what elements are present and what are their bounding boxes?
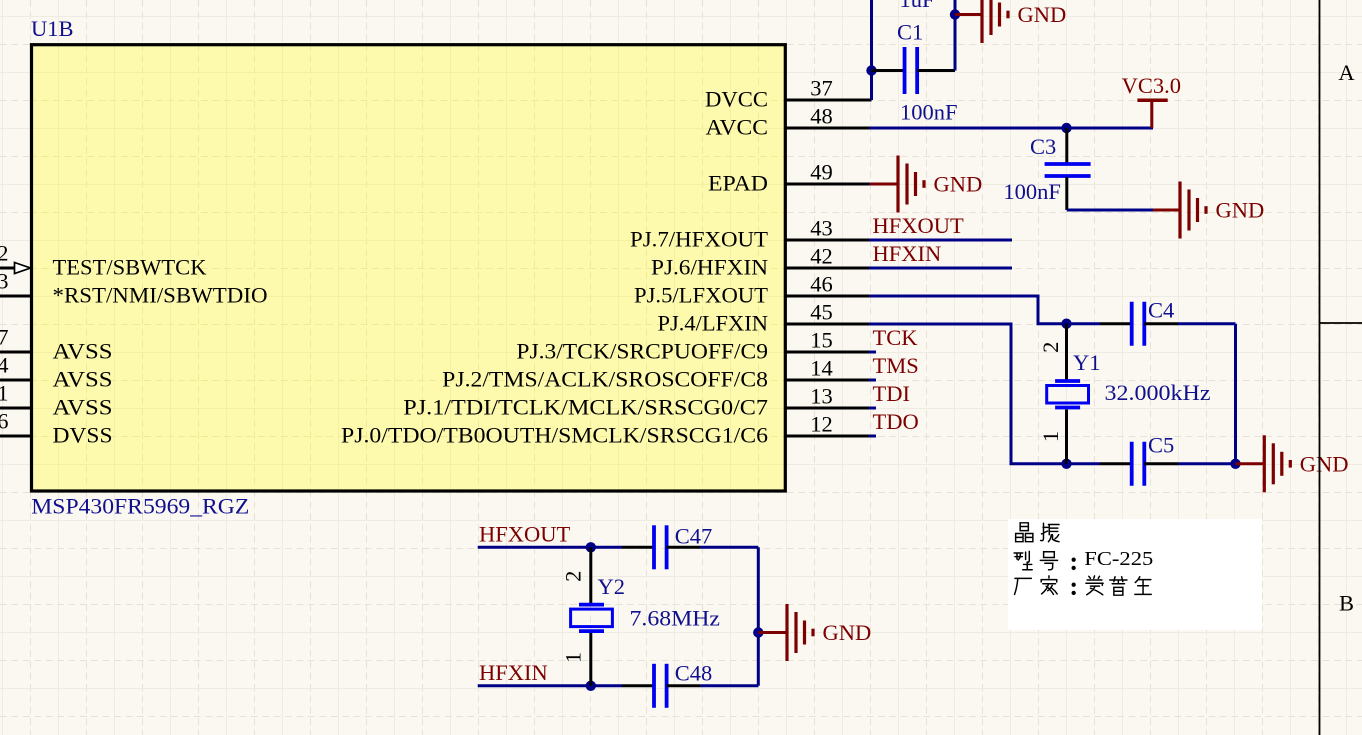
power port GND (top right) — [955, 0, 1066, 43]
pin AVSS (left, number …4) — [0, 353, 113, 392]
value 7.68MHz — [630, 606, 721, 631]
svg-text:VC3.0: VC3.0 — [1122, 73, 1181, 98]
svg-text:1uF: 1uF — [900, 0, 935, 12]
svg-text:PJ.0/TDO/TB0OUTH/SMCLK/SRSCG1/: PJ.0/TDO/TB0OUTH/SMCLK/SRSCG1/C6 — [341, 422, 768, 447]
svg-text:7.68MHz: 7.68MHz — [630, 606, 721, 631]
svg-text:PJ.6/HFXIN: PJ.6/HFXIN — [651, 254, 768, 279]
wire DVCC up to C1 — [870, 0, 873, 100]
capacitor C48 — [622, 661, 712, 708]
svg-text:Y1: Y1 — [1073, 350, 1101, 375]
wire C3 bottom to GND — [1067, 209, 1155, 212]
power port GND (Y2) — [758, 604, 871, 661]
wire HFXIN to C48 — [478, 684, 622, 687]
svg-text:PJ.5/LFXOUT: PJ.5/LFXOUT — [634, 282, 768, 307]
svg-text:49: 49 — [810, 160, 833, 185]
pin 37 DVCC (right) — [705, 76, 872, 112]
designator Y2 — [598, 574, 626, 599]
svg-text:C1: C1 — [897, 19, 923, 44]
power port GND (C3) — [1153, 182, 1264, 239]
pin AVSS (left, number …7) — [0, 325, 113, 364]
wire AVCC to VC3.0 — [869, 127, 1153, 130]
svg-text:100nF: 100nF — [900, 99, 958, 124]
svg-text:48: 48 — [810, 104, 833, 129]
pin 49 EPAD (right) — [708, 160, 872, 196]
net label HFXOUT — [873, 213, 965, 238]
pin AVSS (left, number …1) — [0, 381, 113, 420]
crystal Y1 32.000kHz — [1065, 324, 1068, 464]
svg-text:42: 42 — [810, 244, 833, 269]
net label TMS — [873, 353, 919, 378]
crystal Y2 7.68MHz — [589, 547, 592, 686]
svg-text:1: 1 — [1038, 431, 1063, 442]
svg-text:GND: GND — [1300, 451, 1349, 476]
svg-text:Y2: Y2 — [598, 574, 626, 599]
crystal Y1 symbol — [1047, 381, 1089, 408]
svg-text:PJ.3/TCK/SRCPUOFF/C9: PJ.3/TCK/SRCPUOFF/C9 — [516, 338, 768, 363]
svg-text:DVSS: DVSS — [53, 422, 113, 447]
svg-text:HFXOUT: HFXOUT — [873, 213, 965, 238]
wire crystal bottom node to C5 — [1067, 462, 1101, 465]
text note: crystal type FC-225, maker Epson — [1008, 519, 1262, 630]
svg-text:GND: GND — [823, 620, 872, 645]
capacitor C3 100nF — [1003, 128, 1090, 210]
wire net LFXOUT (pin 46) to crystal top — [869, 296, 1067, 324]
svg-text:HFXIN: HFXIN — [479, 660, 548, 685]
svg-text:1: 1 — [0, 381, 9, 406]
svg-text:13: 13 — [810, 384, 833, 409]
svg-text:C47: C47 — [675, 524, 713, 549]
pin 42 PJ.6/HFXIN (right) — [651, 244, 872, 280]
pin 12 PJ.0/TDO/TB0OUTH/SMCLK/SRSCG1/C6 (right) — [341, 412, 872, 448]
net label TCK — [873, 325, 919, 350]
wire C1 right up to GND net — [954, 0, 957, 71]
net label TDO — [873, 409, 919, 434]
wire net LFXIN (pin 45) to crystal bottom — [869, 324, 1067, 464]
power port GND (EPAD) — [870, 156, 982, 213]
svg-text:3: 3 — [0, 269, 9, 294]
capacitor C1 100nF — [872, 19, 958, 124]
pin 14 PJ.2/TMS/ACLK/SROSCOFF/C8 (right) — [442, 356, 871, 392]
wire stub — [869, 351, 876, 354]
svg-text:TDI: TDI — [873, 381, 911, 406]
svg-text:MSP430FR5969_RGZ: MSP430FR5969_RGZ — [31, 494, 249, 519]
capacitor C2 1uF (cut off at top) — [900, 0, 935, 12]
crystal Y2 symbol — [571, 605, 613, 632]
power port VC3.0 — [1122, 73, 1181, 128]
svg-text:TEST/SBWTCK: TEST/SBWTCK — [53, 254, 208, 279]
svg-text:15: 15 — [810, 328, 833, 353]
node junction at C1 left — [866, 65, 876, 75]
svg-text:32.000kHz: 32.000kHz — [1105, 380, 1211, 405]
wire stub — [869, 379, 876, 382]
svg-text:46: 46 — [810, 272, 833, 297]
svg-text:FC-225: FC-225 — [1084, 548, 1153, 570]
designator U1B — [31, 16, 74, 41]
svg-text:AVSS: AVSS — [53, 394, 113, 419]
svg-text:PJ.4/LFXIN: PJ.4/LFXIN — [658, 310, 769, 335]
node junction AVCC / C3 — [1061, 123, 1071, 133]
svg-text:HFXIN: HFXIN — [873, 241, 942, 266]
svg-text:PJ.7/HFXOUT: PJ.7/HFXOUT — [630, 226, 768, 251]
svg-text:C3: C3 — [1030, 134, 1056, 159]
net label TDI — [873, 381, 911, 406]
svg-text:14: 14 — [810, 356, 833, 381]
value 32.000kHz — [1105, 380, 1211, 405]
node junction crystal Y1 bottom — [1061, 459, 1071, 469]
pin 2 label of Y1 — [1038, 342, 1063, 353]
svg-text:EPAD: EPAD — [708, 170, 768, 195]
svg-text:2: 2 — [1038, 342, 1063, 353]
IC U1B MSP430FR5969_RGZ body — [30, 17, 788, 493]
pin 1 label of Y1 — [1038, 431, 1063, 442]
wire C48 to right rail — [700, 684, 758, 687]
svg-text:TDO: TDO — [873, 409, 919, 434]
svg-text:GND: GND — [1018, 2, 1067, 27]
node junction crystal Y1 top — [1061, 319, 1071, 329]
pin TEST/SBWTCK (left, number …2) — [0, 241, 207, 280]
pin 43 PJ.7/HFXOUT (right) — [630, 216, 872, 252]
wire HFXOUT to C47 — [478, 546, 622, 549]
node junction Y2 GND — [753, 627, 763, 637]
pin 46 PJ.5/LFXOUT (right) — [634, 272, 872, 308]
svg-text:*RST/NMI/SBWTDIO: *RST/NMI/SBWTDIO — [53, 282, 268, 307]
svg-text:GND: GND — [1216, 198, 1265, 223]
pin 1 label of Y2 — [561, 652, 586, 663]
node junction Y2 top — [586, 542, 596, 552]
svg-text:2: 2 — [561, 571, 586, 582]
svg-text:GND: GND — [934, 172, 983, 197]
net label HFXIN — [873, 241, 942, 266]
capacitor C4 — [1100, 298, 1178, 346]
svg-text:B: B — [1339, 591, 1354, 616]
node junction Y2 bottom — [586, 681, 596, 691]
svg-text:A: A — [1338, 60, 1355, 85]
svg-text:HFXOUT: HFXOUT — [479, 522, 571, 547]
wire net HFXOUT (pin 43) — [869, 239, 1012, 242]
svg-text:AVSS: AVSS — [53, 338, 113, 363]
capacitor C47 — [622, 524, 712, 570]
svg-text:4: 4 — [0, 353, 9, 378]
svg-text:TCK: TCK — [873, 325, 919, 350]
node junction at GND net top — [950, 9, 960, 19]
svg-text:C5: C5 — [1148, 432, 1174, 457]
wire C5 to right rail — [1178, 462, 1236, 465]
svg-text:TMS: TMS — [873, 353, 919, 378]
net label HFXIN (Y2) — [479, 660, 548, 685]
svg-text:AVSS: AVSS — [53, 366, 113, 391]
pin *RST/NMI/SBWTDIO (left, number …3) — [0, 269, 268, 308]
wire EPAD to GND — [869, 183, 872, 186]
part name MSP430FR5969_RGZ — [31, 494, 249, 519]
pin 48 AVCC (right) — [706, 104, 872, 140]
capacitor C5 — [1100, 432, 1178, 486]
svg-text:DVCC: DVCC — [705, 86, 768, 111]
svg-text:PJ.1/TDI/TCLK/MCLK/SRSCG0/C7: PJ.1/TDI/TCLK/MCLK/SRSCG0/C7 — [403, 394, 768, 419]
svg-text:1: 1 — [561, 652, 586, 663]
svg-text:AVCC: AVCC — [706, 114, 769, 139]
pin 2 label of Y2 — [561, 571, 586, 582]
svg-text:7: 7 — [0, 325, 9, 350]
wire C47 to right rail — [700, 547, 758, 686]
svg-text:C48: C48 — [675, 661, 713, 686]
svg-text:2: 2 — [0, 241, 9, 266]
svg-text:45: 45 — [810, 300, 833, 325]
net label HFXOUT (Y2) — [479, 522, 571, 547]
svg-text:12: 12 — [810, 412, 833, 437]
svg-text:43: 43 — [810, 216, 833, 241]
svg-text:37: 37 — [810, 76, 833, 101]
svg-text:C4: C4 — [1148, 298, 1174, 323]
pin 45 PJ.4/LFXIN (right) — [658, 300, 872, 336]
svg-text:PJ.2/TMS/ACLK/SROSCOFF/C8: PJ.2/TMS/ACLK/SROSCOFF/C8 — [442, 366, 768, 391]
wire stub — [869, 407, 876, 410]
pin 13 PJ.1/TDI/TCLK/MCLK/SRSCG0/C7 (right) — [403, 384, 871, 420]
power port GND (Y1) — [1236, 435, 1349, 492]
svg-text:U1B: U1B — [31, 16, 74, 41]
wire net HFXIN (pin 42) — [869, 267, 1012, 270]
designator Y1 — [1073, 350, 1101, 375]
node junction right rail / GND — [1230, 459, 1240, 469]
wire stub — [869, 435, 876, 438]
pin DVSS (left, number …6) — [0, 409, 113, 448]
svg-text:100nF: 100nF — [1003, 179, 1061, 204]
wire crystal top node to C4 — [1067, 322, 1101, 325]
svg-text:6: 6 — [0, 409, 9, 434]
wire C4 to right rail — [1178, 324, 1236, 464]
pin 15 PJ.3/TCK/SRCPUOFF/C9 (right) — [516, 328, 871, 364]
